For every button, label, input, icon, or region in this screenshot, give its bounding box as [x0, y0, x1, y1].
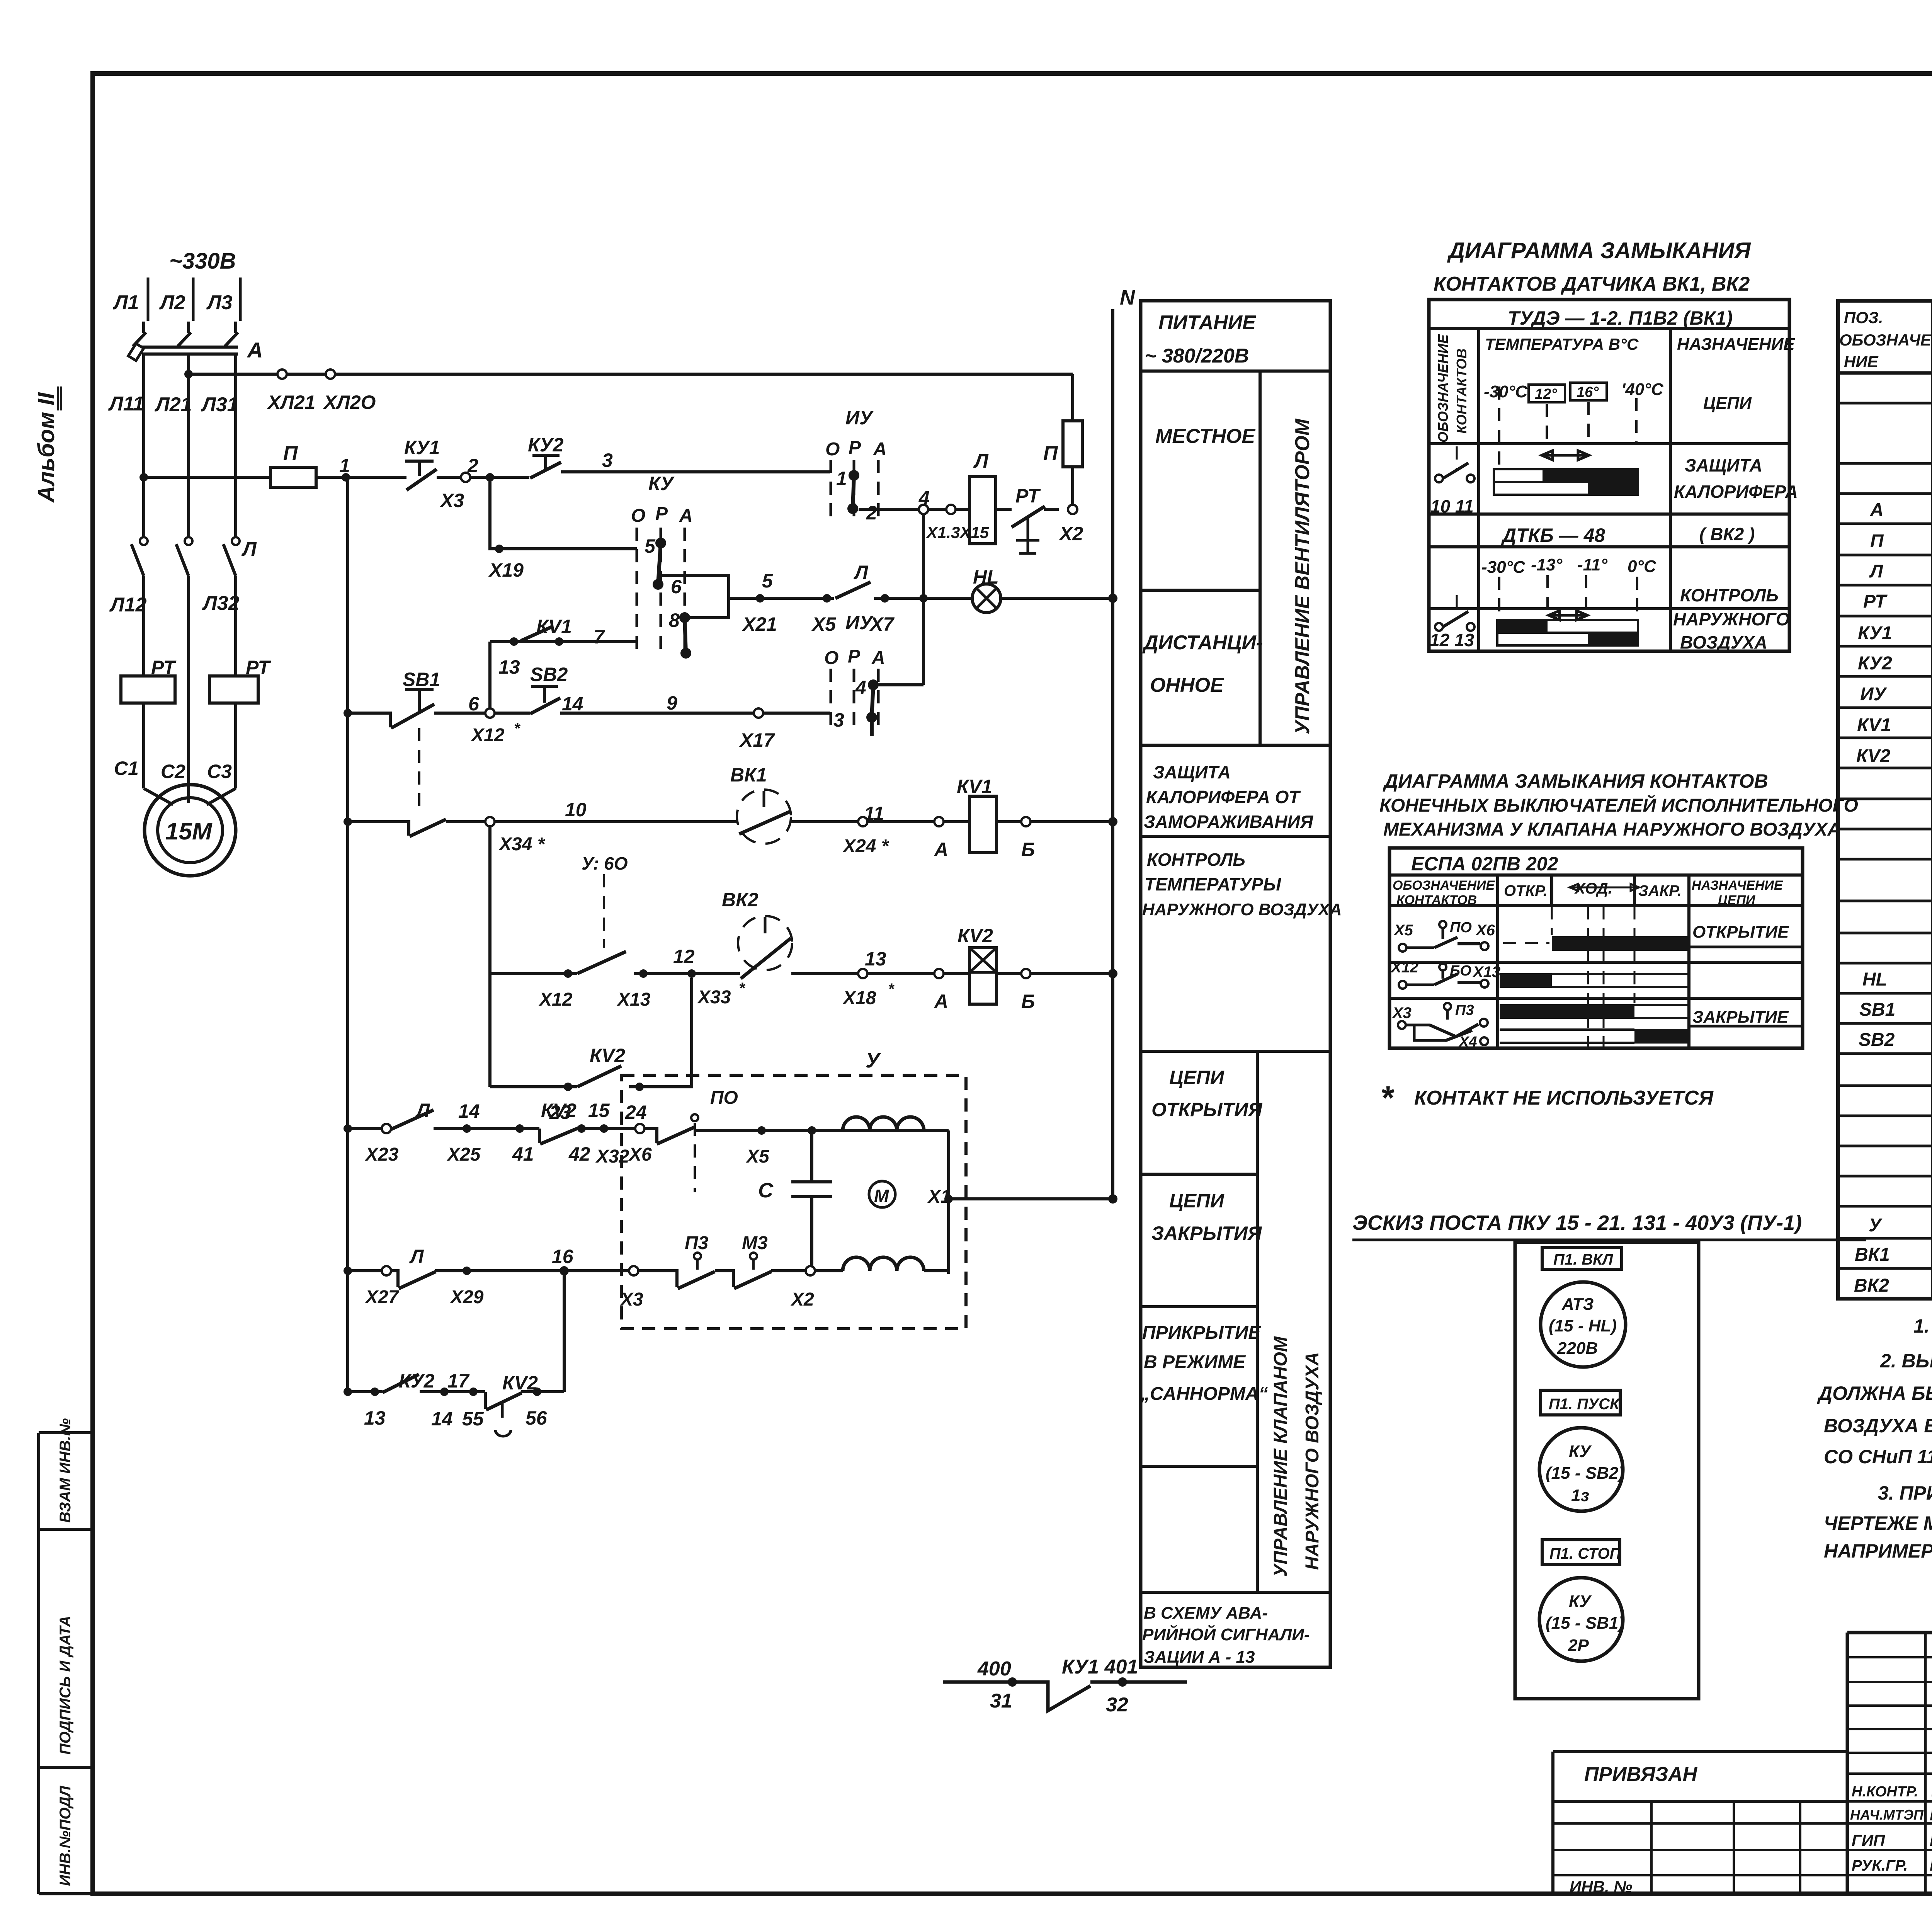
svg-text:ПРИВЯЗАН: ПРИВЯЗАН [1584, 1763, 1698, 1786]
svg-text:8: 8 [669, 609, 680, 631]
svg-text:ОННОЕ: ОННОЕ [1150, 674, 1224, 696]
parts row ВК1 [1855, 1244, 1932, 1266]
svg-text:ПОЗ.: ПОЗ. [1844, 308, 1883, 327]
column label защита калорифера [1144, 762, 1314, 832]
node on phase 2 to control bus [184, 370, 193, 378]
diagram 1 header ДТКБ [1501, 524, 1755, 546]
svg-text:Н.КОНТР.: Н.КОНТР. [1852, 1784, 1918, 1800]
svg-text:С2: С2 [161, 761, 185, 782]
svg-text:ДОЛЖНА БЫТЬ ДОСТАТОЧНА ДЛ: ДОЛЖНА БЫТЬ ДОСТАТОЧНА ДЛЯ ПРИКРЫТИЯ КЛА… [1817, 1382, 1932, 1404]
svg-text:Х5: Х5 [1393, 922, 1413, 939]
svg-text:6: 6 [468, 693, 480, 715]
diagram 1 temperature scale 2 [1481, 555, 1656, 618]
sketch button КУ 15-SВ2 [1539, 1428, 1624, 1511]
svg-text:МЕХАНИЗМА У КЛАПАНА НАРУЖНОГ: МЕХАНИЗМА У КЛАПАНА НАРУЖНОГО ВОЗДУХА [1383, 819, 1841, 840]
svg-text:КУ1 401: КУ1 401 [1062, 1656, 1138, 1678]
svg-text:Х18: Х18 [842, 988, 876, 1008]
svg-text:41: 41 [512, 1143, 534, 1165]
svg-text:*: * [514, 720, 521, 737]
svg-text:Р: Р [849, 438, 861, 458]
svg-text:КАЛОРИФЕРА ОТ: КАЛОРИФЕРА ОТ [1146, 787, 1301, 807]
motor 15М [144, 785, 236, 876]
sketch button label П1.ПУСК [1541, 1390, 1620, 1415]
diagram 2 bars row 2 [1500, 973, 1689, 988]
column label дистанционное [1142, 632, 1263, 696]
svg-text:ЦЕПИ: ЦЕПИ [1703, 394, 1752, 413]
parts row SB2 [1859, 1029, 1932, 1052]
note contact not used [1380, 1079, 1714, 1117]
diagram 1 bars zone 2 [1497, 585, 1790, 652]
circuit breaker A [128, 322, 263, 362]
control post sketch box [1515, 1242, 1699, 1699]
svg-text:ТУДЭ — 1-2. П1В2 (ВК1): ТУДЭ — 1-2. П1В2 (ВК1) [1508, 307, 1733, 329]
svg-text:Х32: Х32 [595, 1146, 629, 1167]
svg-text:24: 24 [625, 1102, 647, 1123]
svg-text:А: А [247, 338, 263, 362]
svg-text:0°С: 0°С [1628, 557, 1656, 576]
svg-text:-11°: -11° [1577, 555, 1607, 574]
node feed of control row П [139, 473, 148, 482]
svg-text:Х4: Х4 [1458, 1034, 1477, 1050]
svg-text:НАЧ.МТЭП: НАЧ.МТЭП [1850, 1807, 1924, 1823]
column label управление клапаном [1270, 1336, 1323, 1577]
svg-text:ВК1: ВК1 [1855, 1245, 1890, 1265]
sensor ВК2 [722, 889, 1113, 979]
svg-text:П: П [1870, 531, 1884, 552]
button КУ2 [528, 434, 564, 478]
svg-text:ИНВ. №: ИНВ. № [1570, 1878, 1632, 1896]
switch КУ local block О Р А [631, 473, 693, 659]
column label управление вентилятором [1291, 418, 1314, 734]
svg-text:В РЕЖИМЕ: В РЕЖИМЕ [1144, 1352, 1246, 1372]
svg-text:ИУ: ИУ [1860, 684, 1888, 705]
svg-text:2: 2 [866, 502, 877, 524]
svg-text:~ 380/220В: ~ 380/220В [1145, 345, 1249, 367]
svg-text:Л: Л [409, 1246, 424, 1267]
column label прикрытие саннорма [1140, 1323, 1268, 1404]
wire row 55 КУ2 КV2 time contact [344, 1370, 564, 1436]
svg-text:Х23: Х23 [364, 1144, 399, 1165]
fuse П in control row [144, 442, 316, 487]
svg-text:СО СНиП 11- 33 -78 П.: СО СНиП 11- 33 -78 П. 4 12.3 ПРИМ. 2 (СМ… [1824, 1446, 1932, 1468]
svg-text:SВ2: SВ2 [530, 664, 568, 685]
svg-text:РТ: РТ [1863, 591, 1888, 612]
svg-text:РУК.ГР.: РУК.ГР. [1852, 1857, 1908, 1874]
svg-text:ЦЕПИ: ЦЕПИ [1169, 1067, 1225, 1088]
wire 5 row with Л aux contact and lamp HL [729, 562, 973, 635]
svg-text:Х7: Х7 [869, 613, 895, 635]
svg-text:С1: С1 [114, 758, 139, 779]
svg-text:КОНТРОЛЬ: КОНТРОЛЬ [1147, 850, 1245, 870]
svg-text:Х5: Х5 [745, 1146, 770, 1167]
svg-text:Х25: Х25 [446, 1144, 481, 1165]
lamp HL [972, 566, 1117, 613]
svg-text:ВК2: ВК2 [722, 889, 759, 911]
svg-text:НL: НL [1862, 969, 1887, 990]
svg-text:ЦЕПИ: ЦЕПИ [1718, 893, 1756, 907]
svg-text:У: У [1869, 1215, 1883, 1236]
svg-text:6: 6 [671, 576, 682, 598]
svg-text:П3: П3 [685, 1233, 709, 1253]
svg-text:КV2: КV2 [590, 1045, 625, 1066]
parts row КV1 [1857, 714, 1932, 738]
svg-text:14: 14 [458, 1100, 480, 1122]
svg-text:УПРАВЛЕНИЕ ВЕНТИЛЯТОРОМ: УПРАВЛЕНИЕ ВЕНТИЛЯТОРОМ [1291, 418, 1314, 734]
svg-text:Х13: Х13 [616, 989, 651, 1010]
svg-text:Л11: Л11 [108, 393, 144, 415]
wire 1 [316, 455, 406, 482]
changeover switch ИУ upper О Р А [825, 407, 887, 524]
parts row П [1870, 530, 1932, 553]
title block signature rows [1850, 1782, 1932, 1875]
svg-text:ЭСКИЗ ПОСТА ПКУ 15 - 21. 131: ЭСКИЗ ПОСТА ПКУ 15 - 21. 131 - 40У3 (ПУ-… [1352, 1211, 1802, 1234]
svg-text:3: 3 [602, 449, 613, 471]
svg-text:Х12: Х12 [470, 725, 505, 746]
svg-text:1. СХЕМА ФУНКЦИОНАЛЬНАЯ ПРИ: 1. СХЕМА ФУНКЦИОНАЛЬНАЯ ПРИВЕДЕНА НА ЧЕР… [1913, 1315, 1932, 1337]
svg-text:ХЛ21: ХЛ21 [267, 392, 315, 413]
drop link Х34* column [488, 826, 492, 1087]
changeover switch ИУ lower О Р А [824, 612, 923, 736]
svg-text:НАПРИМЕР: 15-КУ1, 15 - SВ1,: НАПРИМЕР: 15-КУ1, 15 - SВ1, 15 - 2 И Д.Д… [1824, 1540, 1932, 1562]
svg-text:ПИТАНИЕ: ПИТАНИЕ [1158, 312, 1256, 334]
svg-text:НИЕ: НИЕ [1844, 352, 1879, 371]
parts row А [1870, 499, 1932, 521]
svg-text:Х27: Х27 [364, 1287, 400, 1308]
svg-text:ИНВ.№ПОДЛ: ИНВ.№ПОДЛ [57, 1785, 74, 1886]
svg-text:Л31: Л31 [201, 393, 238, 416]
diagram 2 header ЕСПА [1411, 853, 1558, 875]
svg-text:КУ: КУ [1569, 1442, 1592, 1461]
svg-text:С: С [758, 1179, 774, 1202]
terminal Х12* [470, 708, 521, 746]
svg-text:Х6: Х6 [628, 1144, 652, 1165]
svg-text:ВК1: ВК1 [730, 764, 767, 786]
svg-text:ОТКРЫТИЯ: ОТКРЫТИЯ [1151, 1099, 1263, 1120]
svg-text:Л12: Л12 [109, 594, 147, 616]
svg-text:КОНТАКТОВ ДАТЧИКА ВК1, ВК2: КОНТАКТОВ ДАТЧИКА ВК1, ВК2 [1434, 273, 1750, 295]
wire 11 terminals and coil КV1 [842, 776, 1117, 860]
svg-text:7: 7 [594, 626, 605, 648]
svg-text:КV1: КV1 [1857, 715, 1891, 735]
svg-text:УПРАВЛЕНИЕ КЛАПАНОМ: УПРАВЛЕНИЕ КЛАПАНОМ [1270, 1336, 1291, 1577]
svg-text:ОТКР.: ОТКР. [1504, 882, 1548, 899]
svg-text:ЕСПА 02ПВ 202: ЕСПА 02ПВ 202 [1411, 853, 1558, 875]
terminal Х2 under fuse П [1058, 505, 1083, 545]
svg-text:Х12: Х12 [1390, 959, 1418, 976]
svg-text:400: 400 [977, 1658, 1011, 1680]
svg-text:П1. СТОП: П1. СТОП [1549, 1545, 1621, 1562]
diagram 2 col headers [1393, 878, 1783, 907]
svg-text:КV2: КV2 [1856, 746, 1891, 766]
phase terminals Л1 Л2 Л3 [112, 278, 240, 321]
svg-text:РИЙНОЙ СИГНАЛИ-: РИЙНОЙ СИГНАЛИ- [1142, 1624, 1310, 1644]
svg-text:ПОДПИСЬ И ДАТА: ПОДПИСЬ И ДАТА [57, 1616, 74, 1755]
svg-text:Х6: Х6 [1475, 922, 1495, 939]
motor winding upper [843, 1117, 924, 1130]
svg-text:Х24 *: Х24 * [842, 836, 889, 856]
svg-text:КУ: КУ [648, 473, 675, 494]
diagram 1 contact 10 11 [1430, 446, 1475, 516]
svg-text:Л1: Л1 [112, 291, 139, 314]
svg-text:ОБОЗНАЧЕНИЕ: ОБОЗНАЧЕНИЕ [1435, 334, 1451, 443]
svg-text:П3: П3 [1455, 1002, 1474, 1018]
left control bus [346, 477, 349, 1392]
svg-text:С3: С3 [207, 761, 232, 782]
motor М [869, 1181, 895, 1207]
link from КV1 contact down to Х12* [488, 642, 492, 708]
column label аварийная сигнализация [1142, 1604, 1310, 1667]
svg-text:~330В: ~330В [169, 249, 236, 274]
parts row КV2 [1856, 746, 1932, 768]
sketch lamp АТЗ 15-HL 220В [1541, 1282, 1626, 1367]
diagram 1 temperature scale 1 [1484, 380, 1664, 468]
svg-text:9: 9 [667, 692, 677, 714]
svg-text:(15 - НL): (15 - НL) [1549, 1316, 1617, 1335]
svg-text:МЕСТНОЕ: МЕСТНОЕ [1155, 425, 1255, 448]
svg-text:ОБОЗНАЧЕНИЕ: ОБОЗНАЧЕНИЕ [1393, 878, 1495, 893]
svg-text:( ВК2 ): ( ВК2 ) [1699, 524, 1755, 544]
svg-text:*: * [1380, 1079, 1395, 1117]
button КУ1 [404, 437, 464, 511]
svg-text:5: 5 [645, 535, 656, 557]
neutral bus N [1113, 286, 1135, 1199]
svg-text:КОНТАКТ НЕ ИСПОЛЬЗУЕТСЯ: КОНТАКТ НЕ ИСПОЛЬЗУЕТСЯ [1414, 1087, 1714, 1109]
album label Альбом II [33, 386, 61, 503]
svg-text:SВ1: SВ1 [1859, 999, 1895, 1020]
svg-text:НАРУЖНОГО: НАРУЖНОГО [1673, 609, 1790, 629]
limit switch ПО [645, 1088, 949, 1192]
svg-text:(15 - SВ2): (15 - SВ2) [1546, 1464, 1624, 1483]
svg-text:Х19: Х19 [488, 559, 524, 581]
svg-text:ПО: ПО [710, 1088, 738, 1108]
svg-text:16°: 16° [1577, 384, 1599, 400]
svg-text:КУ1: КУ1 [404, 437, 440, 458]
svg-text:П: П [1043, 442, 1058, 465]
svg-text:А: А [871, 648, 885, 668]
sketch button КУ 15-SВ1 [1539, 1578, 1624, 1661]
node X1 output [927, 1130, 1117, 1274]
actuator У dashed box [621, 1049, 966, 1329]
left margin stamp strip [39, 1418, 92, 1894]
svg-text:-30°С: -30°С [1484, 382, 1528, 401]
svg-text:Л: Л [854, 562, 869, 583]
svg-text:13: 13 [498, 656, 520, 678]
svg-text:ЗАКР.: ЗАКР. [1638, 882, 1682, 899]
svg-text:АТЗ: АТЗ [1561, 1295, 1594, 1314]
svg-text:*: * [739, 980, 746, 997]
parts table header [1839, 308, 1932, 371]
svg-text:ДИАГРАММА ЗАМЫКАНИЯ КОНТАКТО: ДИАГРАММА ЗАМЫКАНИЯ КОНТАКТОВ [1383, 770, 1768, 792]
svg-text:1з: 1з [1571, 1486, 1589, 1505]
svg-text:Р: Р [848, 646, 861, 667]
parts row РТ [1863, 591, 1932, 614]
svg-text:М ОРОЗ: М ОРОЗ [1930, 1856, 1932, 1874]
svg-text:3. ПРИ МАРКИРОВКЕ ЦЕПЕЙ И: 3. ПРИ МАРКИРОВКЕ ЦЕПЕЙ И АППАРАТОВ К УК… [1878, 1482, 1932, 1504]
svg-text:НАЗНАЧЕНИЕ: НАЗНАЧЕНИЕ [1692, 878, 1783, 893]
notes text [1817, 1315, 1932, 1562]
column label питание [1145, 312, 1256, 367]
parts row КУ2 [1858, 652, 1932, 675]
svg-text:Х2: Х2 [790, 1289, 814, 1310]
wire 12 row with contact У:6О [490, 853, 746, 1010]
column label местное [1155, 425, 1255, 448]
svg-text:ГИП: ГИП [1852, 1831, 1885, 1849]
parts row ВК2 [1854, 1275, 1932, 1297]
svg-text:А: А [1870, 500, 1884, 520]
wire 10 with contact Х34* [344, 799, 738, 855]
motor terminals С1 С2 С3 [114, 758, 232, 782]
svg-text:Х33: Х33 [697, 987, 731, 1008]
svg-text:14: 14 [562, 693, 583, 715]
parts row SB1 [1859, 999, 1932, 1021]
diagram 2 table [1389, 848, 1803, 1048]
svg-text:Л2: Л2 [159, 291, 185, 314]
svg-text:В СХЕМУ АВА-: В СХЕМУ АВА- [1144, 1604, 1268, 1622]
svg-text:-30°С: -30°С [1481, 558, 1526, 577]
svg-text:КОНТАКТОВ: КОНТАКТОВ [1454, 349, 1469, 434]
fuse П right column [1043, 374, 1082, 505]
svg-text:У: 6О: У: 6О [582, 853, 628, 873]
svg-text:Х1.3Х15: Х1.3Х15 [926, 523, 989, 541]
svg-text:Л21: Л21 [154, 393, 192, 416]
svg-text:П: П [283, 442, 298, 465]
svg-text:ДИСТАНЦИ-: ДИСТАНЦИ- [1142, 632, 1263, 654]
svg-text:„САННОРМА“: „САННОРМА“ [1140, 1384, 1268, 1404]
svg-text:15: 15 [588, 1100, 610, 1121]
diagram 2 title [1379, 770, 1858, 840]
svg-text:Х5: Х5 [811, 613, 836, 635]
svg-text:Б: Б [1021, 839, 1035, 860]
КУ block output loop to wire 5 [659, 575, 729, 618]
diagram 2 contact group X3 П3 X4 [1392, 1002, 1488, 1050]
svg-text:РТ: РТ [1015, 485, 1041, 507]
svg-text:Л32: Л32 [202, 592, 240, 615]
svg-text:12: 12 [673, 946, 695, 967]
svg-text:(15 - SВ1): (15 - SВ1) [1546, 1614, 1624, 1633]
svg-text:220В: 220В [1557, 1339, 1598, 1358]
parts row ИУ [1860, 684, 1932, 706]
svg-text:N: N [1120, 286, 1135, 309]
diagram 2 bars rows 3 4 [1500, 906, 1789, 1048]
svg-text:Х3: Х3 [1392, 1004, 1412, 1021]
svg-text:А: А [679, 506, 693, 526]
svg-text:ЩЕЛЕВИЛЯ: ЩЕЛЕВИЛЯ [1930, 1831, 1932, 1849]
parts row HL [1862, 969, 1932, 991]
svg-text:НАРУЖНОГО ВОЗДУХА: НАРУЖНОГО ВОЗДУХА [1302, 1352, 1323, 1570]
svg-text:КАЛОРИФЕРА: КАЛОРИФЕРА [1674, 482, 1798, 502]
svg-text:Б: Б [1021, 991, 1035, 1012]
svg-text:12°: 12° [1535, 386, 1557, 402]
phase wires Л12 Л32 [109, 576, 240, 803]
svg-text:ДИАГРАММА ЗАМЫКАНИЯ: ДИАГРАММА ЗАМЫКАНИЯ [1447, 238, 1751, 263]
svg-text:31: 31 [990, 1690, 1012, 1712]
column label цепи открытия [1151, 1067, 1263, 1120]
svg-text:-13°: -13° [1531, 555, 1563, 574]
svg-text:КОНТАКТОВ: КОНТАКТОВ [1396, 893, 1477, 907]
svg-text:'40°С: '40°С [1621, 380, 1664, 399]
svg-text:ИУ: ИУ [845, 407, 874, 429]
capacitor С [758, 1130, 832, 1271]
svg-text:ЗАЦИИ А - 13: ЗАЦИИ А - 13 [1144, 1648, 1255, 1667]
terminal X3 and node 2 [461, 455, 529, 482]
svg-text:1: 1 [339, 455, 350, 477]
svg-text:Х3: Х3 [439, 490, 464, 511]
phase wires Л11 Л21 Л31 [108, 356, 238, 538]
column label цепи закрытия [1151, 1190, 1262, 1244]
svg-text:17: 17 [447, 1370, 470, 1392]
svg-text:Р: Р [655, 504, 668, 524]
svg-text:13: 13 [364, 1407, 386, 1429]
diagram 2 contact group X5 ПО X6 [1393, 919, 1495, 952]
motor winding lower [843, 1257, 949, 1271]
svg-text:14: 14 [431, 1408, 453, 1430]
svg-text:Х12: Х12 [538, 989, 573, 1010]
sensor ВК1 [730, 764, 1113, 844]
svg-text:О: О [825, 439, 840, 460]
svg-text:SВ2: SВ2 [1859, 1030, 1895, 1050]
svg-text:42: 42 [568, 1143, 590, 1165]
svg-text:КОНТРОЛЬ: КОНТРОЛЬ [1680, 585, 1779, 605]
svg-text:13: 13 [865, 948, 886, 970]
parts row Л [1869, 560, 1932, 583]
svg-text:ОБОЗНАЧЕ-: ОБОЗНАЧЕ- [1839, 331, 1932, 349]
svg-text:10: 10 [565, 799, 587, 821]
diagram 1 bars zone 1 [1494, 451, 1798, 502]
parts row У [1869, 1212, 1932, 1236]
svg-text:Х29: Х29 [449, 1287, 484, 1308]
svg-text:1: 1 [836, 468, 847, 489]
svg-text:ЧЕРТЕЖЕ МАРКИРОВКЕ ДОБАВИТ: ЧЕРТЕЖЕ МАРКИРОВКЕ ДОБАВИТЬ НОМЕР ПРИВОД… [1824, 1512, 1932, 1534]
svg-text:ТЕМПЕРАТУРА В°С: ТЕМПЕРАТУРА В°С [1485, 335, 1639, 353]
diagram 1 contact 12 13 [1430, 595, 1475, 650]
sketch title [1352, 1211, 1866, 1240]
title block grid [1847, 1633, 1932, 1894]
svg-text:Х17: Х17 [739, 729, 775, 751]
svg-text:Х21: Х21 [742, 613, 777, 635]
svg-text:ЗАЩИТА: ЗАЩИТА [1685, 455, 1762, 475]
diagram 1 col headers [1435, 334, 1795, 443]
svg-text:О: О [631, 506, 645, 526]
svg-text:П1. ПУСК: П1. ПУСК [1549, 1396, 1620, 1413]
contactor coil Л [969, 450, 996, 544]
wire 13 terminals and coil КV2 [842, 925, 1117, 1012]
svg-text:КОНЕЧНЫХ ВЫКЛЮЧАТЕЛЕЙ ИСПОЛНИТ: КОНЕЧНЫХ ВЫКЛЮЧАТЕЛЕЙ ИСПОЛНИТЕЛЬНОГО [1379, 795, 1858, 816]
svg-text:Х13: Х13 [1472, 964, 1500, 981]
svg-text:ЗАКРЫТИЕ: ЗАКРЫТИЕ [1692, 1008, 1789, 1027]
svg-text:Х34 *: Х34 * [498, 834, 546, 855]
svg-text:4: 4 [855, 677, 866, 698]
svg-text:12 13: 12 13 [1430, 630, 1475, 650]
diagram 2 bars row 1 [1503, 923, 1789, 951]
svg-text:3: 3 [833, 709, 844, 731]
wire 7 from KV1 contact to КУ block [490, 616, 637, 678]
svg-text:У: У [866, 1049, 881, 1072]
svg-text:ХЛ2О: ХЛ2О [323, 392, 376, 413]
svg-text:*: * [888, 981, 895, 998]
svg-text:ИУ: ИУ [845, 612, 874, 633]
svg-text:М3: М3 [742, 1233, 768, 1253]
sketch lamp label П1.ВКЛ [1542, 1248, 1622, 1269]
wire row Х23 open circuit feed [344, 1100, 652, 1167]
parts list table grid [1838, 301, 1932, 1299]
wire 23 24 with contact КV2 [490, 978, 692, 1123]
svg-text:Х3: Х3 [619, 1289, 643, 1310]
function column grid [1141, 301, 1330, 1667]
alarm circuit contact КУ1 400 401 [943, 1656, 1187, 1716]
limit switches П3 М3 row [619, 1233, 843, 1310]
svg-text:Х2: Х2 [1058, 523, 1083, 545]
svg-text:ВОЗДУХА: ВОЗДУХА [1680, 632, 1767, 652]
